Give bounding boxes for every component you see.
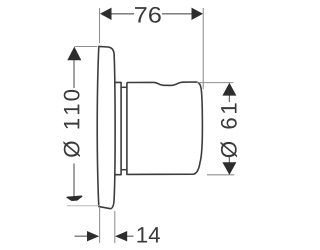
- dimension Ø61: top arrowhead: [222, 83, 236, 96]
- dimension 14: value label: [137, 227, 159, 242]
- dimension 76: right extension line: [202, 8, 204, 89]
- dimension Ø110: value label (rotated): [63, 90, 80, 157]
- dimension 14: left arrowhead (pointing right): [87, 231, 99, 241]
- dimension 14: left tail line: [75, 235, 89, 237]
- escutcheon plate (side view): [97, 46, 115, 208]
- dimension 76: left extension line: [99, 8, 101, 43]
- dimension Ø110: dimension line upper segment: [73, 60, 75, 88]
- dimension Ø61: value label (rotated): [221, 103, 238, 157]
- dimension Ø61: dimension line lower segment: [228, 157, 230, 163]
- dimension 76: dimension line left segment: [111, 13, 134, 15]
- dimension Ø110: bottom extension line: [67, 205, 99, 207]
- dimension Ø110: bottom squashed arrowhead: [67, 196, 81, 200]
- dimension Ø61: bottom extension line: [207, 174, 234, 176]
- dimension Ø110: top extension line: [75, 46, 98, 48]
- sleeve flange: [115, 82, 121, 174]
- dimension 14: left extension line: [99, 207, 101, 243]
- dimension 76: left arrowhead: [100, 8, 112, 20]
- dimension 76: right arrowhead: [192, 8, 204, 20]
- dimension Ø61: dimension line upper segment: [228, 95, 230, 102]
- dimension 14: right tail line: [127, 235, 134, 237]
- dimension 76: dimension line right segment: [162, 13, 192, 15]
- handle (side view): [127, 82, 202, 174]
- neck ring bottom edge: [121, 169, 127, 171]
- dimension Ø110: top arrowhead: [67, 47, 81, 61]
- dimension Ø110: dimension line lower segment: [73, 164, 75, 197]
- dimension 14: right arrowhead (pointing left): [115, 231, 127, 241]
- neck ring top edge: [121, 86, 127, 88]
- dimension Ø61: bottom arrowhead: [222, 162, 236, 175]
- dimension 76: value label: [135, 7, 161, 23]
- dimension 14: right extension line: [114, 211, 116, 243]
- dimension Ø61: top extension line: [197, 82, 234, 84]
